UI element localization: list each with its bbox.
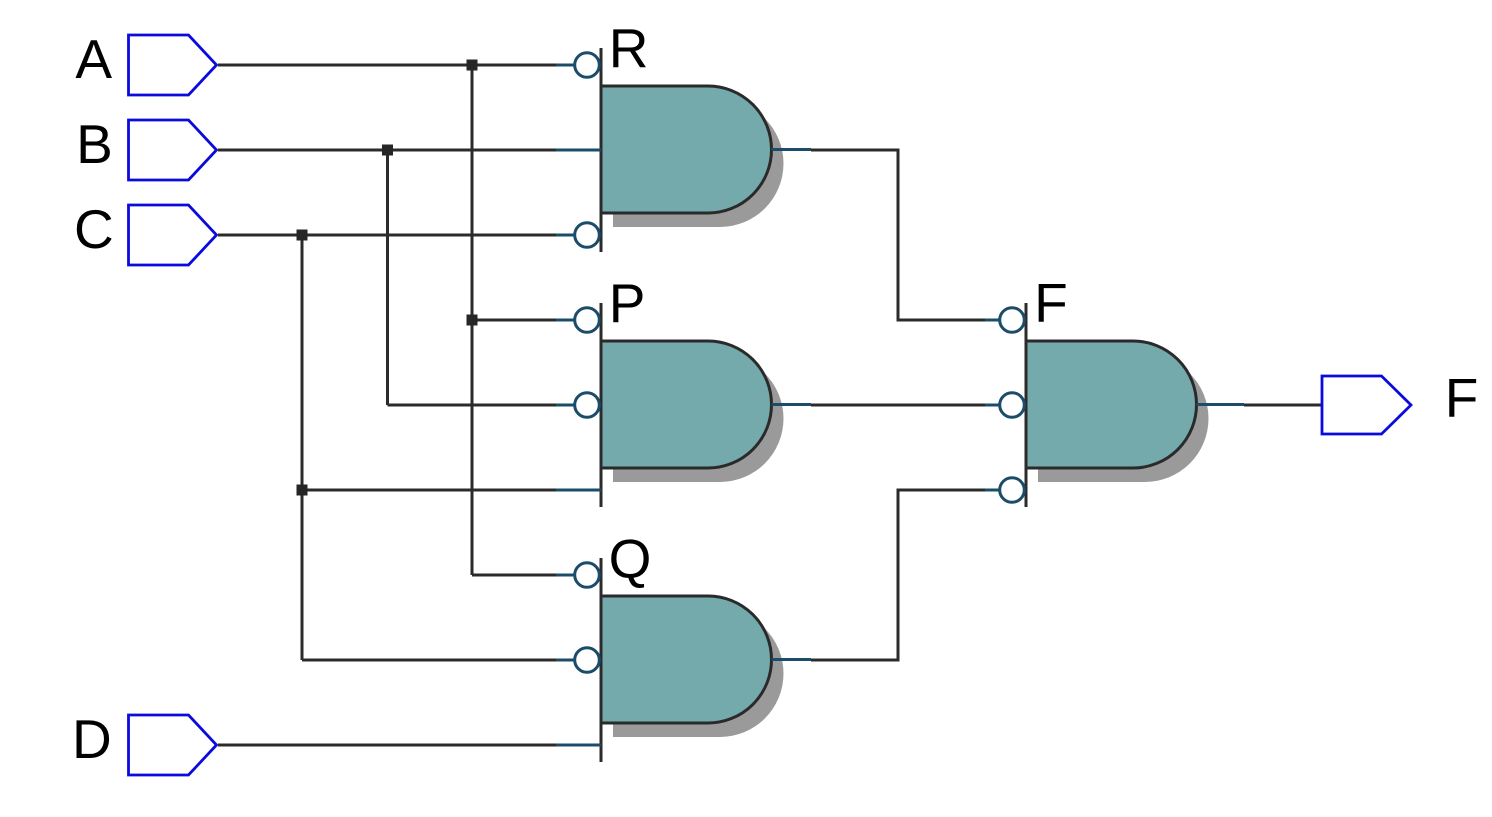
svg-text:P: P bbox=[609, 272, 646, 334]
inverter bubble Q input 1 bbox=[575, 563, 600, 588]
inverter bubble R input 1 bbox=[575, 53, 600, 78]
gate Q output stub (navy) bbox=[772, 658, 812, 661]
AND gate F body bbox=[1026, 303, 1197, 507]
gate F input stub 3 (navy) bbox=[985, 489, 999, 492]
gate Q input stub 3 (navy) bbox=[556, 744, 601, 747]
inverter bubble R input 3 bbox=[575, 223, 600, 248]
gate F output stub (navy) bbox=[1197, 403, 1245, 406]
gate P input stub 3 (navy) bbox=[556, 489, 601, 492]
wire A to P top bbox=[472, 319, 556, 322]
AND gate Q shadow bbox=[613, 610, 784, 737]
svg-text:B: B bbox=[76, 113, 113, 175]
inverter bubble F input 1 bbox=[1000, 308, 1025, 333]
AND gate F shadow bbox=[1038, 355, 1209, 482]
wire R output to F top bbox=[811, 150, 985, 320]
gate R input stub 3 (navy) bbox=[556, 234, 574, 237]
AND gate R body bbox=[601, 48, 772, 252]
input pin A bbox=[129, 35, 217, 95]
gate Q input stub 2 (navy) bbox=[556, 659, 574, 662]
wire C to Q middle bbox=[302, 659, 556, 662]
inverter bubble F input 3 bbox=[1000, 478, 1025, 503]
gate P output stub (navy) bbox=[772, 403, 812, 406]
wire B vertical bbox=[386, 150, 389, 405]
input pin C bbox=[129, 205, 217, 265]
wire C to P bottom bbox=[302, 489, 556, 492]
gate R input stub 1 (navy) bbox=[556, 64, 574, 67]
wire D horizontal bbox=[218, 744, 556, 747]
inverter bubble F input 2 bbox=[1000, 393, 1025, 418]
svg-text:A: A bbox=[75, 28, 112, 90]
inverter bubble Q input 2 bbox=[575, 648, 600, 673]
svg-text:F: F bbox=[1445, 367, 1479, 429]
wire B horizontal bbox=[218, 149, 556, 152]
svg-text:C: C bbox=[74, 198, 114, 260]
svg-text:D: D bbox=[72, 708, 112, 770]
wire P output to F middle bbox=[811, 404, 985, 407]
AND gate R shadow bbox=[613, 100, 784, 227]
junction on wire C at vertical bbox=[297, 230, 308, 241]
junction on C vertical at P bottom row bbox=[297, 485, 308, 496]
gate F input stub 1 (navy) bbox=[985, 319, 999, 322]
input pin D bbox=[129, 715, 217, 775]
junction on wire B at vertical bbox=[382, 145, 393, 156]
gate R output stub (navy) bbox=[772, 148, 812, 151]
wire C horizontal bbox=[218, 234, 556, 237]
AND gate P shadow bbox=[613, 355, 784, 482]
gate Q input stub 1 (navy) bbox=[556, 574, 574, 577]
junction on A vertical at P top row bbox=[467, 315, 478, 326]
AND gate Q body bbox=[601, 558, 772, 762]
svg-text:R: R bbox=[609, 17, 649, 79]
svg-text:F: F bbox=[1034, 272, 1068, 334]
wire A horizontal bbox=[218, 64, 556, 67]
junction on wire A at vertical bbox=[467, 60, 478, 71]
wire Q output to F bottom bbox=[811, 490, 985, 660]
wire A vertical bbox=[471, 65, 474, 575]
wire F output to pin bbox=[1244, 404, 1321, 407]
wire A to Q top bbox=[472, 574, 556, 577]
gate P input stub 1 (navy) bbox=[556, 319, 574, 322]
input pin B bbox=[129, 120, 217, 180]
svg-text:Q: Q bbox=[609, 528, 652, 590]
AND gate P body bbox=[601, 303, 772, 507]
output pin F bbox=[1322, 376, 1411, 434]
gate P input stub 2 (navy) bbox=[556, 404, 574, 407]
inverter bubble P input 2 bbox=[575, 393, 600, 418]
gate R input stub 2 (navy) bbox=[556, 149, 601, 152]
gate F input stub 2 (navy) bbox=[985, 404, 999, 407]
inverter bubble P input 1 bbox=[575, 308, 600, 333]
wire B to P middle bbox=[388, 404, 557, 407]
wire C vertical bbox=[301, 235, 304, 660]
